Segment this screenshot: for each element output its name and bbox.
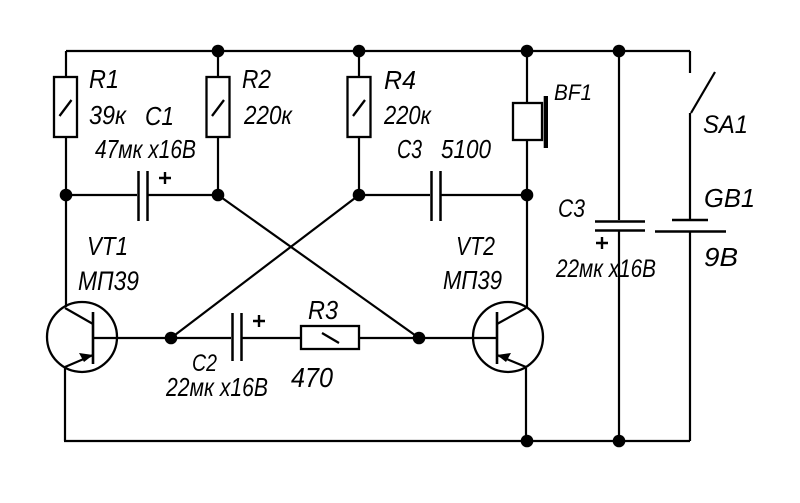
wire GB1 bottom lead — [689, 232, 691, 441]
wire VT1 emitter lead — [64, 368, 66, 441]
svg-text:22мк х16В: 22мк х16В — [165, 372, 268, 402]
wire VT2 base node to base — [419, 337, 497, 339]
svg-text:5100: 5100 — [441, 134, 491, 164]
node VT2 emitter bottom junction — [521, 435, 534, 448]
wire bottom return bus — [64, 440, 690, 442]
wire C3 (5100) right lead — [441, 194, 527, 196]
speaker BF1 — [513, 96, 548, 148]
resistor R3 — [301, 326, 359, 349]
switch SA1 blade — [691, 72, 715, 113]
resistor R2 — [207, 77, 230, 137]
svg-text:R4: R4 — [384, 65, 416, 95]
svg-text:220к: 220к — [243, 100, 293, 130]
capacitor C3 (22mk x16V) — [595, 222, 645, 231]
node R2 top junction — [212, 45, 225, 58]
node VT1 base junction — [165, 332, 178, 345]
svg-text:МП39: МП39 — [78, 266, 139, 296]
svg-text:9В: 9В — [704, 242, 738, 272]
node C3 top junction — [613, 45, 626, 58]
svg-text:GB1: GB1 — [704, 183, 755, 213]
svg-text:С3: С3 — [397, 134, 422, 164]
svg-text:220к: 220к — [383, 100, 432, 130]
wire C3 (5100) left lead — [359, 194, 430, 196]
wire C1 right lead — [148, 194, 218, 196]
plus sign of C3 (22mk) — [596, 237, 608, 249]
transistor VT2 — [473, 302, 543, 372]
wire VT2 emitter lead — [525, 368, 527, 441]
wire R2 top lead — [217, 51, 219, 77]
svg-text:R2: R2 — [242, 64, 271, 94]
battery GB1 — [655, 220, 726, 232]
wire cross-coupling R4 node to VT1 base — [171, 195, 359, 338]
svg-text:МП39: МП39 — [443, 265, 502, 295]
svg-text:VT2: VT2 — [456, 231, 495, 261]
node VT1 collector junction — [60, 189, 73, 202]
svg-text:47мк х16В: 47мк х16В — [95, 134, 196, 164]
svg-text:С3: С3 — [558, 195, 585, 223]
wire SA1 to GB1 — [689, 113, 691, 219]
node R4 bottom junction — [353, 189, 366, 202]
wire C3 (22mk) bottom lead — [618, 231, 620, 441]
svg-text:R1: R1 — [89, 64, 119, 94]
node VT2 base junction — [413, 332, 426, 345]
svg-text:22мк х16В: 22мк х16В — [555, 255, 656, 283]
wire R4 bottom lead — [358, 137, 360, 195]
svg-text:VT1: VT1 — [87, 231, 128, 261]
capacitor C3 (5100) — [432, 171, 441, 221]
wire R1 bottom lead — [65, 137, 67, 195]
capacitor C1 — [139, 171, 148, 221]
wire VT2 collector lead — [526, 195, 528, 307]
wire switch SA1 fixed contact — [689, 51, 691, 73]
wire R1 top lead — [65, 51, 67, 77]
node R4 top junction — [353, 45, 366, 58]
svg-text:C1: C1 — [145, 101, 174, 131]
node BF1 top junction — [521, 45, 534, 58]
wire C3 (22mk) top lead — [618, 51, 620, 220]
wire R3 to VT2 base node — [359, 337, 419, 339]
transistor VT1 — [47, 302, 117, 372]
svg-text:SA1: SA1 — [703, 111, 748, 139]
resistor R1 — [54, 77, 77, 137]
wire BF1 top lead — [526, 51, 528, 103]
wire BF1 bottom lead — [526, 140, 528, 195]
svg-text:470: 470 — [291, 362, 333, 393]
plus sign of C1 — [159, 172, 171, 184]
wire VT1 collector lead from node — [65, 195, 67, 307]
wire top supply bus — [66, 50, 690, 52]
svg-text:BF1: BF1 — [554, 80, 592, 105]
svg-text:R3: R3 — [308, 295, 338, 325]
wire C1 left lead — [66, 194, 137, 196]
wire cross-coupling R2 collector node to VT2 base — [218, 195, 419, 338]
wire R4 top lead — [358, 51, 360, 77]
resistor R4 — [348, 77, 371, 137]
node VT2 collector junction — [521, 189, 534, 202]
plus sign of C2 — [253, 315, 265, 327]
wire VT1 base to node — [117, 337, 171, 339]
node C3 bottom junction — [613, 435, 626, 448]
node R2 bottom junction — [212, 189, 225, 202]
svg-text:39к: 39к — [89, 100, 128, 130]
wire VT1 base node to C2 — [171, 337, 231, 339]
capacitor C2 — [233, 313, 242, 361]
wire R2 bottom lead — [217, 137, 219, 195]
wire C2 to R3 — [242, 337, 301, 339]
